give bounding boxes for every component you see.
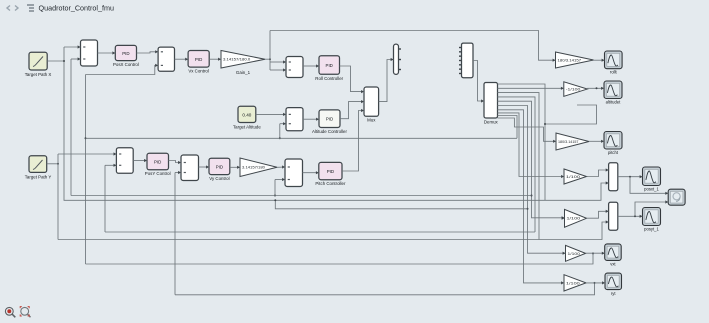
wire vy sum to Vy Control xyxy=(199,166,210,168)
sum block roll error xyxy=(286,57,303,78)
wire demux out10 jog route to rad2deg pitch gain xyxy=(498,118,557,141)
wire demux out1 down x545 to net L2 xyxy=(498,84,546,200)
PID block Vx Control xyxy=(188,51,209,68)
wire altitude sum minus stub xyxy=(280,123,286,125)
scope vxt xyxy=(605,244,622,261)
svg-text:Altitude Controller: Altitude Controller xyxy=(312,129,347,134)
wire vertical x85 from y74 down to net L5 xyxy=(85,75,87,265)
wire roll gain to rollt scope xyxy=(594,59,605,61)
wire demux out4 down x535 to net L3 xyxy=(498,97,536,232)
wire vertical x175 vy feedback xyxy=(174,173,176,295)
sum block altitude error xyxy=(286,108,303,131)
wire vy sum minus stub xyxy=(175,172,181,174)
wire deg2rad gain to pitch sum plus xyxy=(277,166,285,168)
PID block Pitch Controller xyxy=(319,162,342,179)
PID block PosY Control xyxy=(147,153,169,170)
wire vertical x71 posX sum minus down to net L1 xyxy=(70,59,72,196)
wire vertical x105 posY feedback xyxy=(104,165,106,232)
wire into roll sum plus xyxy=(270,61,286,63)
svg-text:1/100: 1/100 xyxy=(567,217,581,221)
toolbar icon hierarchy-list xyxy=(27,5,34,11)
svg-text:PosY Control: PosY Control xyxy=(145,171,171,176)
wire posy mux to posyt_1 scope xyxy=(618,215,643,217)
svg-text:PID: PID xyxy=(122,51,129,56)
svg-text:altitudet: altitudet xyxy=(606,99,622,104)
wire net L2 posx feedback vertical x64 + horizontal y200 to display mux xyxy=(64,47,609,200)
source block Target Path X xyxy=(29,52,47,70)
wire into posX sum minus xyxy=(71,58,81,60)
gain Gain_1 value 3.14157/180.0 xyxy=(221,51,265,69)
toolbar icon forward-arrow xyxy=(15,6,18,11)
wire altitude sum to Altitude Controller xyxy=(303,118,319,120)
wire Target Altitude to altitude sum plus xyxy=(256,113,286,115)
svg-text:Target Path Y: Target Path Y xyxy=(25,174,52,179)
wire pitch sum to Pitch Controller xyxy=(303,172,319,174)
gain posx display value 1/100 xyxy=(564,169,587,184)
wire posY sum minus stub xyxy=(105,164,116,166)
scope altitudet xyxy=(604,81,622,99)
svg-text:Gain_1: Gain_1 xyxy=(236,70,251,75)
svg-text:Mux: Mux xyxy=(367,118,376,123)
wire bus creator to Demux input xyxy=(473,61,484,102)
mux block posx display mux xyxy=(609,163,618,191)
scope ryt xyxy=(605,273,622,290)
mux block Mux 3-input xyxy=(364,87,379,116)
svg-text:Target Altitude: Target Altitude xyxy=(233,125,261,130)
svg-text:posyt_1: posyt_1 xyxy=(644,227,659,232)
wire into posX sum plus xyxy=(64,46,81,48)
gain posy display value 1/100 xyxy=(565,209,587,227)
svg-text:posxt_1: posxt_1 xyxy=(644,187,659,192)
wire net L4 horizontal y239 to posy display mux in2 xyxy=(58,222,609,240)
wire Vx Control to Gain_1 xyxy=(209,58,221,60)
wire vertical x280 down to altitude feedback run xyxy=(279,124,281,139)
wire net L5 horizontal y264 rising to vx gain output line xyxy=(86,253,594,264)
wire vx gain to vxt scope xyxy=(586,252,605,254)
svg-text:Quadrotor_Control_fmu: Quadrotor_Control_fmu xyxy=(39,4,115,13)
wire demux out6 down x527 to vx display gain xyxy=(498,106,566,254)
gain rad2deg roll value 180/3.14157 xyxy=(556,52,594,68)
sum block vy error xyxy=(181,155,199,181)
PID block Altitude Controller xyxy=(319,110,340,128)
scope pitcht xyxy=(604,132,622,150)
gain rad2deg pitch value 180/3.14157 xyxy=(556,133,589,150)
svg-text:180/3.14157: 180/3.14157 xyxy=(558,140,578,144)
wire demux out3 down x539 to net L4 xyxy=(498,93,540,240)
wire posY sum to PosY Control xyxy=(133,160,147,162)
wire altitude gain to altitudet scope xyxy=(587,87,604,89)
sum block vx error xyxy=(158,47,174,71)
wire link run y209 from net L2 to vx feed vertical xyxy=(275,200,527,209)
wire net L3 horizontal y232 xyxy=(105,231,535,233)
bus creator block with 7 unconnected inputs xyxy=(462,43,474,78)
wire into roll sum minus xyxy=(270,69,286,71)
svg-text:PID: PID xyxy=(195,57,202,62)
svg-text:vxt: vxt xyxy=(610,262,616,267)
wire Gain_1 output to branch point xyxy=(265,58,270,60)
PID block Roll Controller xyxy=(319,56,340,75)
svg-text:0.40: 0.40 xyxy=(242,113,251,118)
wire posx gain to posx mux in1 xyxy=(587,170,609,177)
wire posx mux to posxt_1 scope xyxy=(618,176,643,178)
wire Altitude Controller to Mux in2 xyxy=(340,102,364,119)
svg-text:1/100: 1/100 xyxy=(568,252,581,256)
wire Target Path Y output xyxy=(47,163,58,165)
wire ry gain to ryt scope xyxy=(586,282,605,284)
wire vx sum to Vx Control xyxy=(175,58,189,60)
wire demux out8 to posx display gain xyxy=(498,113,565,177)
scope rollt xyxy=(605,51,623,69)
gain ry display value 1/100 xyxy=(564,275,586,291)
wire run y74 into vx sum minus xyxy=(86,65,159,74)
svg-text:3.14157/180.0: 3.14157/180.0 xyxy=(223,57,251,62)
wire Mux output to thin demux capsule xyxy=(379,60,394,102)
scope posyt_1 xyxy=(643,208,661,226)
wire branch to fmu info block in2 xyxy=(635,202,668,216)
svg-text:Roll Controller: Roll Controller xyxy=(315,76,343,81)
wire demux out5 down x531 through net L1 end to posy display gain xyxy=(498,101,565,218)
wire posy gain to posy mux in1 xyxy=(587,211,609,218)
scope posxt_1 xyxy=(643,167,661,186)
wire Vy Control to deg2rad pitch gain xyxy=(230,166,240,168)
wire demux out7 down x523 to ry display gain xyxy=(498,110,565,283)
wire net L6 horizontal y294 rising to ry gain output line xyxy=(175,283,595,295)
thin demux capsule with 3 unconnected outputs xyxy=(394,44,399,74)
svg-text:rollt: rollt xyxy=(610,70,618,75)
zoom-fit magnifier icon with red corner marks xyxy=(20,307,30,318)
sum block posY error xyxy=(116,148,133,174)
toolbar icon back-arrow xyxy=(7,6,10,11)
wire Target Path X output xyxy=(47,60,64,62)
arrowhead into posx display mux in2 xyxy=(606,181,609,184)
wire Pitch Controller to Mux in3 xyxy=(342,111,364,172)
svg-text:1/100: 1/100 xyxy=(566,281,580,285)
svg-text:PID: PID xyxy=(327,169,334,174)
wire into posY sum plus xyxy=(58,153,116,155)
source block Target Path Y xyxy=(29,156,47,173)
mux block posy display mux xyxy=(609,202,618,230)
wire branch vertical x270 xyxy=(269,31,271,71)
wire PosX Control to vx sum plus xyxy=(137,52,159,53)
sum block pitch error xyxy=(285,159,303,187)
svg-text:Vx Control: Vx Control xyxy=(188,68,209,73)
sum block posX error xyxy=(81,40,98,66)
gain altitude display value -1/100 xyxy=(564,82,588,97)
svg-text:PosX Control: PosX Control xyxy=(113,62,139,67)
wire net L1 horizontal y195 xyxy=(71,195,532,197)
svg-text:180/3.14157: 180/3.14157 xyxy=(558,58,582,62)
gain vx display value 1/100 xyxy=(566,245,586,261)
wire pitch gain to pitcht scope xyxy=(589,140,604,142)
constant block Target Altitude value 0.40 xyxy=(238,106,256,122)
svg-text:-1/100: -1/100 xyxy=(566,87,581,91)
PID block PosX Control xyxy=(115,45,136,60)
wire top run y31 to rad2deg roll gain xyxy=(270,31,556,61)
wire vertical x275 pitch feedback branch xyxy=(274,180,276,196)
svg-text:Pitch Controller: Pitch Controller xyxy=(315,181,346,186)
wire vertical x58 posY plus and L4 feedback xyxy=(57,154,59,240)
svg-text:PID: PID xyxy=(154,160,161,165)
wire PosY Control to vy sum plus xyxy=(169,161,182,163)
svg-text:PID: PID xyxy=(326,63,333,68)
fmu info block with circular arrow icon xyxy=(668,189,685,205)
PID block Vy Control xyxy=(209,158,230,174)
wire branch to fmu info block in1 xyxy=(630,177,668,194)
wire demux out2 to altitude display gain xyxy=(498,87,564,89)
wire roll sum to Roll Controller xyxy=(303,65,319,67)
svg-text:pitcht: pitcht xyxy=(608,150,619,155)
wire Roll Controller to Mux in1 xyxy=(340,66,365,92)
demux block Demux xyxy=(484,83,498,119)
svg-text:PID: PID xyxy=(216,164,223,169)
svg-text:PID: PID xyxy=(326,117,333,122)
wire pitch sum minus stub xyxy=(275,179,285,181)
zoom-in magnifier icon with red dot xyxy=(5,307,15,317)
svg-text:3.14157/180: 3.14157/180 xyxy=(242,165,266,170)
wire altitude feedback run y138 xyxy=(86,137,518,139)
svg-text:Vy Control: Vy Control xyxy=(209,176,229,181)
wire demux out9 down x517 to altitude feedback run xyxy=(498,116,518,139)
svg-text:Demux: Demux xyxy=(484,119,499,124)
svg-text:Target Path X: Target Path X xyxy=(25,72,52,77)
wire u-shaped branch at y124 xyxy=(545,105,597,124)
svg-text:1/100: 1/100 xyxy=(566,175,580,179)
wire posX sum to PosX Control xyxy=(98,52,116,54)
gain deg2rad pitch value 3.14157/180 xyxy=(240,158,277,177)
